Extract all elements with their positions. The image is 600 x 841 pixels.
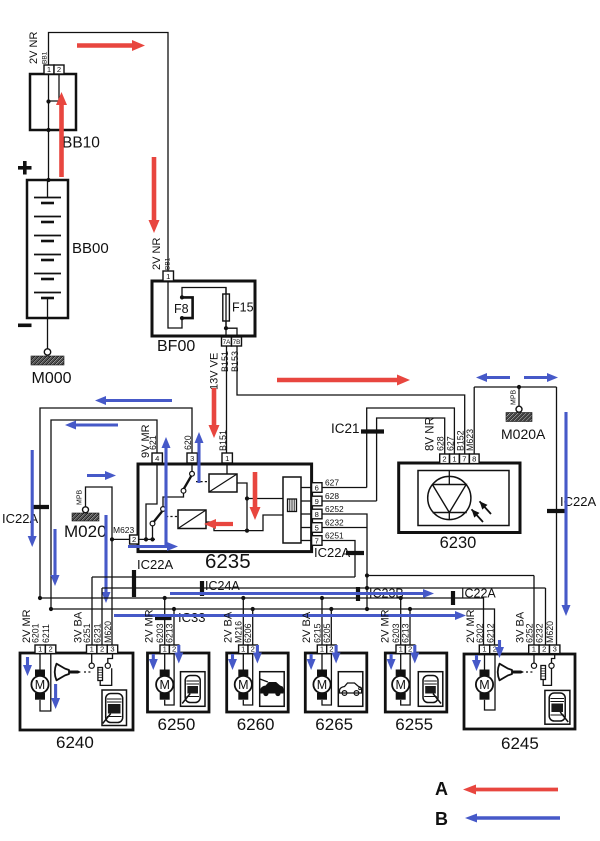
svg-text:1: 1: [452, 455, 456, 464]
svg-text:6232: 6232: [535, 623, 545, 643]
svg-text:6255: 6255: [395, 715, 433, 734]
svg-text:F15: F15: [232, 301, 254, 315]
svg-text:BB1: BB1: [42, 51, 49, 64]
svg-text:B153: B153: [230, 351, 240, 372]
svg-text:B151: B151: [218, 430, 228, 451]
svg-text:6211: 6211: [41, 624, 51, 643]
svg-text:M020: M020: [64, 522, 107, 541]
svg-text:IC22A: IC22A: [137, 557, 173, 572]
svg-text:6201: 6201: [31, 623, 41, 643]
svg-text:1: 1: [47, 65, 51, 74]
svg-text:628: 628: [325, 491, 339, 501]
svg-text:2: 2: [172, 645, 176, 654]
svg-text:2V MR: 2V MR: [144, 609, 156, 643]
svg-text:6206: 6206: [243, 623, 253, 643]
svg-text:6260: 6260: [237, 715, 275, 734]
svg-text:M: M: [159, 678, 169, 692]
svg-text:620: 620: [183, 435, 193, 450]
svg-text:3: 3: [110, 645, 114, 654]
svg-text:M: M: [317, 678, 327, 692]
svg-text:3: 3: [553, 645, 557, 654]
svg-text:2: 2: [100, 645, 104, 654]
svg-text:1: 1: [482, 645, 486, 654]
svg-text:2: 2: [408, 645, 412, 654]
svg-text:1: 1: [225, 454, 229, 463]
svg-text:MPB: MPB: [511, 390, 518, 406]
svg-text:7A: 7A: [223, 339, 232, 346]
svg-text:F8: F8: [174, 302, 189, 316]
svg-text:8: 8: [472, 455, 476, 464]
svg-text:B151: B151: [220, 351, 230, 372]
svg-text:6205: 6205: [322, 623, 332, 643]
svg-text:B152: B152: [456, 430, 466, 451]
svg-text:2: 2: [57, 65, 61, 74]
svg-text:6252: 6252: [325, 504, 344, 514]
svg-text:2: 2: [132, 535, 136, 544]
svg-text:1: 1: [320, 645, 324, 654]
svg-text:1: 1: [399, 645, 403, 654]
svg-text:M000: M000: [32, 370, 72, 387]
svg-text:2: 2: [442, 455, 446, 464]
svg-text:7: 7: [462, 455, 466, 464]
svg-text:IC21: IC21: [331, 421, 360, 436]
svg-text:M623: M623: [113, 525, 135, 535]
svg-text:BB00: BB00: [72, 240, 109, 257]
svg-text:6213: 6213: [165, 623, 175, 643]
svg-text:1: 1: [90, 645, 94, 654]
svg-text:M: M: [395, 678, 405, 692]
svg-text:3: 3: [190, 454, 194, 463]
svg-text:M620: M620: [545, 621, 555, 643]
svg-text:6251: 6251: [82, 623, 92, 643]
svg-text:6202: 6202: [475, 623, 485, 643]
svg-text:1: 1: [163, 645, 167, 654]
svg-text:6235: 6235: [205, 550, 251, 573]
svg-text:6251: 6251: [325, 531, 344, 541]
svg-text:2V MR: 2V MR: [380, 609, 392, 643]
svg-text:8: 8: [315, 510, 319, 519]
svg-text:1: 1: [166, 272, 170, 281]
svg-text:6250: 6250: [158, 715, 196, 734]
svg-text:2: 2: [48, 645, 52, 654]
svg-text:IC33: IC33: [178, 610, 205, 625]
svg-text:6252: 6252: [524, 623, 534, 643]
svg-text:6212: 6212: [485, 623, 495, 643]
svg-text:6240: 6240: [56, 733, 94, 752]
svg-text:M020A: M020A: [501, 426, 546, 442]
svg-text:627: 627: [325, 478, 339, 488]
svg-text:7B: 7B: [233, 339, 241, 346]
svg-text:2: 2: [329, 645, 333, 654]
svg-text:BF00: BF00: [157, 338, 195, 355]
svg-text:6213: 6213: [401, 623, 411, 643]
svg-text:6230: 6230: [440, 534, 477, 552]
svg-text:4: 4: [155, 454, 159, 463]
svg-text:6245: 6245: [501, 734, 539, 753]
svg-text:2V BA: 2V BA: [222, 611, 234, 643]
svg-text:MPB: MPB: [77, 490, 84, 506]
svg-text:M: M: [35, 678, 45, 692]
svg-text:1: 1: [532, 645, 536, 654]
svg-text:627: 627: [445, 436, 455, 451]
svg-text:1: 1: [38, 645, 42, 654]
svg-text:6231: 6231: [93, 623, 103, 643]
svg-text:BB1: BB1: [165, 257, 172, 270]
svg-text:IC22A: IC22A: [461, 587, 496, 601]
svg-text:B: B: [435, 809, 448, 829]
svg-text:1: 1: [241, 645, 245, 654]
svg-text:BB10: BB10: [62, 135, 100, 152]
svg-text:2: 2: [542, 645, 546, 654]
svg-text:M: M: [238, 678, 248, 692]
svg-text:628: 628: [436, 436, 446, 451]
svg-text:M: M: [479, 678, 489, 692]
svg-text:5: 5: [315, 523, 319, 532]
svg-text:2V NR: 2V NR: [28, 32, 40, 64]
svg-text:2: 2: [251, 645, 255, 654]
svg-text:8V NR: 8V NR: [425, 417, 437, 451]
svg-text:A: A: [435, 779, 448, 799]
svg-text:2V BA: 2V BA: [301, 611, 313, 643]
svg-text:2V NR: 2V NR: [151, 238, 163, 270]
svg-text:13V VE: 13V VE: [209, 353, 221, 390]
svg-text:621: 621: [148, 435, 158, 450]
svg-text:6232: 6232: [325, 518, 344, 528]
svg-text:IC22A: IC22A: [314, 545, 350, 560]
svg-text:6: 6: [315, 483, 319, 492]
svg-text:IC24A: IC24A: [205, 579, 240, 593]
svg-text:6265: 6265: [315, 715, 353, 734]
svg-text:M620: M620: [103, 621, 113, 643]
svg-text:9: 9: [315, 497, 319, 506]
